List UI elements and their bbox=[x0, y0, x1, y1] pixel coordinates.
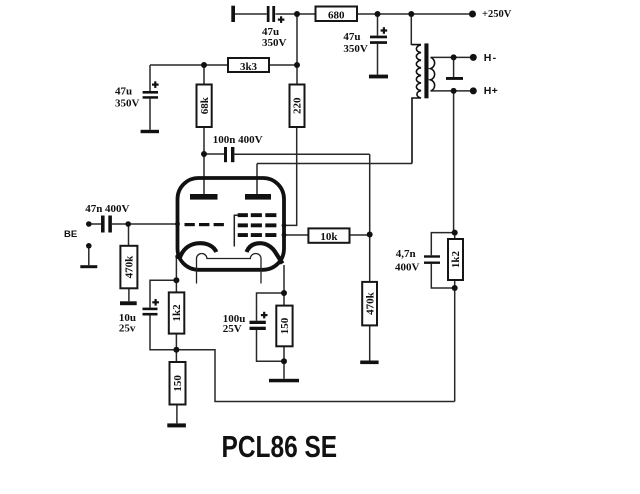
svg-text:1k2: 1k2 bbox=[450, 250, 462, 268]
svg-text:150: 150 bbox=[279, 317, 291, 334]
svg-text:350V: 350V bbox=[115, 98, 140, 110]
svg-text:3k3: 3k3 bbox=[240, 61, 258, 73]
svg-text:+250V: +250V bbox=[482, 9, 512, 20]
svg-text:PCL86 SE: PCL86 SE bbox=[222, 429, 338, 463]
svg-text:100n 400V: 100n 400V bbox=[213, 134, 263, 146]
svg-text:400V: 400V bbox=[395, 262, 420, 274]
svg-text:BE: BE bbox=[64, 229, 77, 240]
svg-text:680: 680 bbox=[328, 9, 345, 21]
svg-text:H+: H+ bbox=[484, 85, 498, 97]
svg-text:470k: 470k bbox=[124, 255, 136, 279]
svg-text:1k2: 1k2 bbox=[171, 304, 183, 322]
svg-text:47u: 47u bbox=[115, 86, 132, 98]
svg-text:H-: H- bbox=[484, 52, 497, 64]
svg-text:47n 400V: 47n 400V bbox=[85, 203, 129, 215]
svg-text:47u: 47u bbox=[343, 31, 360, 43]
svg-text:350V: 350V bbox=[262, 37, 287, 49]
svg-text:150: 150 bbox=[172, 375, 184, 392]
svg-text:4,7n: 4,7n bbox=[396, 248, 416, 260]
svg-text:25v: 25v bbox=[119, 323, 136, 335]
svg-text:350V: 350V bbox=[343, 43, 368, 55]
svg-text:220: 220 bbox=[292, 97, 304, 114]
svg-text:68k: 68k bbox=[199, 96, 211, 114]
svg-text:470k: 470k bbox=[364, 291, 376, 315]
svg-text:10k: 10k bbox=[320, 231, 338, 243]
svg-text:25V: 25V bbox=[223, 323, 242, 335]
